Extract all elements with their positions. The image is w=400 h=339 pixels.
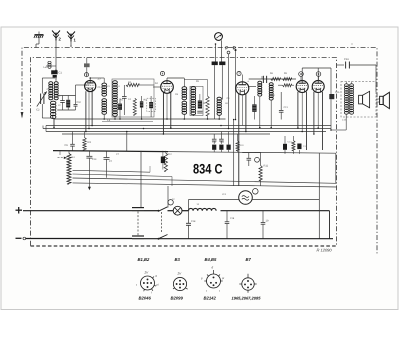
svg-text:B4,B5: B4,B5 xyxy=(205,257,218,262)
svg-text:B7: B7 xyxy=(246,257,252,262)
svg-text:L14: L14 xyxy=(342,119,347,122)
svg-text:C1: C1 xyxy=(59,72,63,75)
svg-text:C16: C16 xyxy=(344,58,349,61)
svg-text:P: P xyxy=(225,45,228,50)
svg-text:R3: R3 xyxy=(88,141,92,144)
svg-text:R10: R10 xyxy=(271,94,276,97)
svg-text:pl: pl xyxy=(221,277,224,280)
svg-text:C10: C10 xyxy=(77,101,82,104)
svg-text:834 C: 834 C xyxy=(193,162,223,177)
svg-text:B3: B3 xyxy=(175,257,181,262)
svg-text:R12: R12 xyxy=(168,153,173,156)
svg-text:C13: C13 xyxy=(284,106,289,109)
svg-text:C13: C13 xyxy=(92,158,97,161)
svg-text:B2099: B2099 xyxy=(171,296,184,301)
svg-text:1965,2067,2085: 1965,2067,2085 xyxy=(232,296,262,301)
svg-text:C18: C18 xyxy=(230,217,235,220)
svg-text:C15: C15 xyxy=(335,91,340,94)
svg-text:C2: C2 xyxy=(36,109,40,112)
svg-text:R 12090: R 12090 xyxy=(317,248,333,253)
svg-text:B2046: B2046 xyxy=(139,296,152,301)
svg-text:pl: pl xyxy=(156,284,159,287)
svg-text:R11: R11 xyxy=(264,165,269,168)
svg-text:C18: C18 xyxy=(191,220,196,223)
svg-text:C6: C6 xyxy=(65,144,69,147)
svg-text:B2142: B2142 xyxy=(204,296,217,301)
svg-text:B1,B2: B1,B2 xyxy=(138,257,151,262)
